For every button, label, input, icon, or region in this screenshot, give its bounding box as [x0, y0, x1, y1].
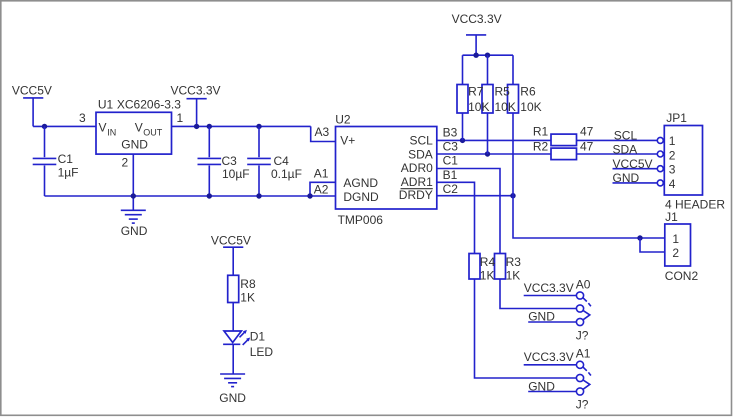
svg-text:1µF: 1µF	[58, 166, 79, 180]
resistor R2	[533, 139, 594, 159]
svg-text:TMP006: TMP006	[338, 213, 384, 227]
svg-text:R5: R5	[495, 85, 511, 99]
svg-text:1K: 1K	[506, 269, 521, 283]
wire R2 to JP1 pin 2	[577, 153, 658, 155]
wire R7 top lead	[462, 55, 464, 84]
connector JP1	[664, 111, 725, 212]
wire C4 lower	[258, 166, 260, 197]
node AGND on rail	[307, 193, 312, 198]
svg-text:V+: V+	[340, 134, 355, 148]
wire C4 upper	[258, 126, 260, 157]
svg-text:1: 1	[672, 232, 679, 246]
capacitor C4	[247, 154, 302, 181]
node J1 branch junction	[637, 235, 642, 240]
resistor R1	[533, 125, 594, 146]
svg-text:CON2: CON2	[665, 269, 699, 283]
svg-text:3: 3	[669, 163, 676, 177]
wire R4 bottom to jumper A1	[475, 279, 577, 378]
wire SCL from U2 to R1	[437, 139, 551, 141]
ground symbol below U1	[121, 210, 148, 238]
svg-text:D1: D1	[250, 329, 266, 343]
svg-text:JP1: JP1	[666, 111, 687, 125]
svg-text:B1: B1	[443, 168, 458, 182]
node C3 bottom	[207, 193, 212, 198]
wire ground rail	[45, 195, 336, 197]
svg-text:C3: C3	[222, 154, 238, 168]
svg-text:VCC3.3V: VCC3.3V	[524, 350, 574, 364]
wire R8 to LED	[232, 303, 234, 332]
wire R3 bottom to jumper A0	[500, 279, 576, 309]
svg-text:IN: IN	[107, 128, 116, 138]
wire VCC3.3V stub jumper A0	[524, 295, 577, 297]
svg-text:4: 4	[669, 177, 676, 191]
wire VCC5V stub to JP1 pin 3	[613, 168, 658, 170]
svg-text:10K: 10K	[520, 100, 541, 114]
svg-text:B3: B3	[443, 125, 458, 139]
wire GND stub jumper A1	[528, 391, 576, 393]
wire GND stub jumper A0	[528, 321, 576, 323]
svg-text:10K: 10K	[495, 100, 516, 114]
wire R1 to JP1 pin 1	[577, 139, 658, 141]
svg-text:GND: GND	[121, 224, 148, 238]
resistor R6	[468, 85, 542, 114]
svg-text:OUT: OUT	[143, 128, 163, 138]
resistor R7	[457, 85, 468, 114]
wire R5 bottom lead	[487, 113, 489, 154]
resistor R4	[469, 254, 480, 280]
svg-text:SCL: SCL	[614, 128, 638, 142]
svg-text:3: 3	[79, 111, 86, 125]
jumper J? A0	[576, 292, 591, 342]
power VCC5V above R8	[211, 233, 251, 275]
node SCL/R7 junction	[460, 138, 465, 143]
capacitor C3	[198, 154, 250, 181]
svg-text:R8: R8	[240, 277, 256, 291]
svg-text:DRDY: DRDY	[399, 188, 433, 202]
svg-text:47: 47	[580, 139, 594, 153]
pin circle JP1-4	[657, 180, 663, 186]
op-amp U1 regulator box XC6206	[96, 98, 181, 155]
svg-text:A0: A0	[576, 278, 591, 292]
power VCC3.3V above regulator output	[171, 84, 221, 127]
wire C3 upper	[208, 126, 210, 157]
jumper J? A1	[576, 361, 591, 411]
wire C1 branch upper	[44, 126, 46, 157]
svg-text:1K: 1K	[240, 290, 255, 304]
wire A3 step to V+	[311, 126, 336, 141]
wire GND stub to JP1 pin 4	[613, 182, 658, 184]
pin circle JP1-3	[657, 166, 663, 172]
wire ADR1 from U2	[437, 182, 475, 253]
wire R6 bottom lead	[512, 113, 514, 196]
wire DRDY from U2	[437, 195, 513, 197]
resistor R3	[480, 254, 521, 283]
wire LED to ground	[232, 344, 234, 374]
node C1 top junction	[42, 124, 47, 129]
ground symbol below LED	[219, 374, 246, 405]
svg-text:C1: C1	[58, 152, 74, 166]
svg-text:C1: C1	[443, 154, 459, 168]
svg-text:A3: A3	[315, 125, 330, 139]
svg-text:VCC5V: VCC5V	[12, 84, 52, 98]
svg-text:J?: J?	[576, 328, 589, 342]
svg-text:2: 2	[672, 246, 679, 260]
svg-text:1K: 1K	[480, 269, 495, 283]
svg-text:GND: GND	[528, 379, 555, 393]
svg-text:J1: J1	[665, 210, 678, 224]
wire pull-up top bus	[463, 54, 514, 56]
wire VCC3.3V stub jumper A1	[524, 364, 577, 366]
node bus/R5 junction	[485, 53, 490, 58]
node bus/power junction	[473, 53, 478, 58]
wire J1 pin 2 branch	[640, 238, 665, 252]
diode D1 LED	[223, 329, 273, 359]
power VCC3.3V pull-up supply	[452, 12, 502, 55]
svg-text:GND: GND	[121, 138, 148, 152]
svg-text:ADR0: ADR0	[401, 161, 433, 175]
svg-text:AGND: AGND	[343, 176, 378, 190]
svg-text:R4: R4	[480, 255, 496, 269]
node U1 pin 2 on rail	[131, 193, 136, 198]
svg-text:XC6206-3.3: XC6206-3.3	[117, 98, 181, 112]
svg-text:GND: GND	[219, 391, 246, 405]
power VCC5V (top-left)	[12, 84, 52, 127]
node C4 top	[256, 124, 261, 129]
svg-text:SDA: SDA	[613, 143, 638, 157]
svg-text:LED: LED	[250, 345, 274, 359]
wire R7 bottom lead	[462, 113, 464, 140]
svg-text:0.1µF: 0.1µF	[271, 167, 302, 181]
wire SDA from U2 to R2	[437, 153, 551, 155]
svg-text:C2: C2	[443, 182, 459, 196]
svg-text:2: 2	[669, 148, 676, 162]
svg-text:GND: GND	[528, 309, 555, 323]
svg-text:R7: R7	[468, 85, 484, 99]
node VCC3.3V junction	[194, 124, 199, 129]
wire C3 lower	[208, 166, 210, 197]
svg-text:SCL: SCL	[409, 134, 433, 148]
svg-text:A1: A1	[576, 346, 591, 360]
svg-text:U2: U2	[335, 113, 351, 127]
wire U1 pin 2 down	[132, 154, 134, 210]
svg-text:1: 1	[177, 111, 184, 125]
svg-text:V: V	[99, 121, 107, 135]
svg-text:J?: J?	[576, 398, 589, 412]
resistor R8	[228, 275, 256, 304]
wire DRDY down and across to J1	[513, 196, 665, 238]
svg-text:2: 2	[122, 156, 129, 170]
wire AGND jog	[310, 182, 336, 196]
svg-text:DGND: DGND	[343, 190, 379, 204]
svg-text:VCC3.3V: VCC3.3V	[452, 12, 502, 26]
svg-text:ADR1: ADR1	[401, 175, 433, 189]
svg-text:GND: GND	[613, 171, 640, 185]
svg-text:SDA: SDA	[408, 147, 433, 161]
wire ADR0 from U2	[437, 169, 500, 254]
svg-text:VCC5V: VCC5V	[613, 157, 653, 171]
pin circle JP1-2	[657, 151, 663, 157]
svg-text:R3: R3	[506, 255, 522, 269]
svg-text:U1: U1	[98, 98, 114, 112]
capacitor C1	[33, 152, 79, 180]
svg-text:R1: R1	[533, 125, 549, 139]
svg-text:C3: C3	[443, 139, 459, 153]
wire VCC5V to U1 pin 3	[33, 125, 96, 127]
svg-text:10µF: 10µF	[222, 167, 250, 181]
svg-text:V: V	[135, 121, 143, 135]
wire R6 top lead	[512, 55, 514, 84]
svg-text:47: 47	[580, 125, 594, 139]
wire R5 top lead	[487, 55, 489, 84]
svg-text:VCC3.3V: VCC3.3V	[524, 281, 574, 295]
svg-text:VCC3.3V: VCC3.3V	[171, 84, 221, 98]
svg-text:R2: R2	[533, 139, 549, 153]
svg-text:VCC5V: VCC5V	[211, 233, 251, 247]
svg-text:A2: A2	[314, 183, 329, 197]
node SDA/R5 junction	[485, 151, 490, 156]
node DRDY/R6 junction	[510, 193, 515, 198]
svg-text:R6: R6	[520, 85, 536, 99]
pin circle JP1-1	[657, 137, 663, 143]
IC U2 TMP006	[335, 113, 437, 228]
svg-text:1: 1	[669, 134, 676, 148]
wire C1 bottom to rail	[44, 166, 46, 197]
node C3 top	[207, 124, 212, 129]
wire U1 pin 1 output	[172, 125, 311, 127]
node C4 bottom	[256, 193, 261, 198]
resistor R5	[482, 85, 493, 114]
svg-text:C4: C4	[274, 154, 290, 168]
connector J1	[665, 210, 699, 283]
svg-text:10K: 10K	[468, 100, 489, 114]
svg-text:A1: A1	[314, 166, 329, 180]
